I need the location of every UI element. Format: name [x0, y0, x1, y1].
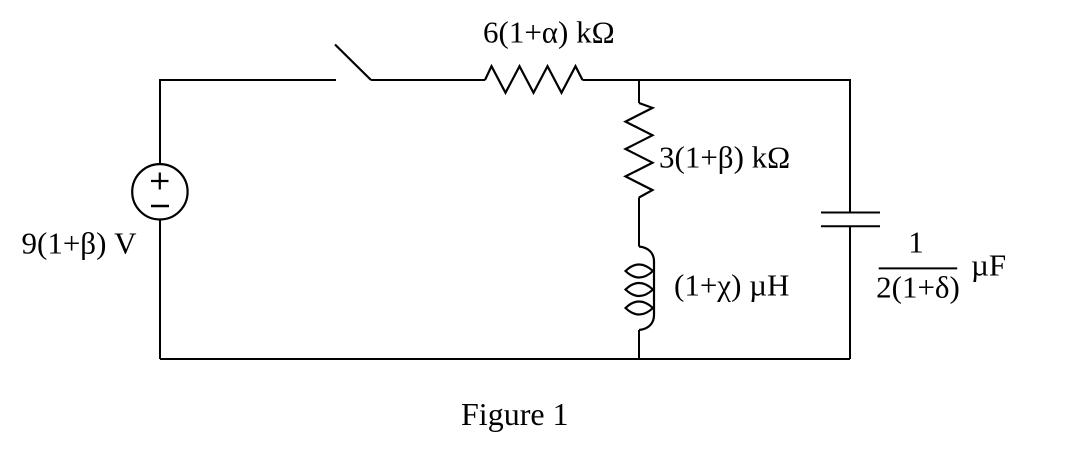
wire middle branch top lead	[638, 79, 640, 103]
svg-text:µF: µF	[971, 248, 1006, 283]
switch S1 (open blade)	[335, 45, 371, 81]
svg-text:1: 1	[908, 225, 924, 260]
capacitor C top plate	[821, 212, 880, 214]
inductor loop 1	[626, 265, 654, 278]
wire inductor bottom lead	[638, 330, 640, 359]
wire resistor to inductor	[638, 198, 640, 247]
svg-text:(1+χ) µH: (1+χ) µH	[674, 268, 789, 303]
wire top-left horizontal (source to switch)	[160, 79, 336, 81]
resistor 6(1+α) kΩ zigzag	[485, 66, 583, 93]
wire resistor to top-right corner	[583, 79, 851, 81]
wire right vertical lower (capacitor to bottom)	[849, 226, 851, 359]
inductor (1+χ) µH coil frame	[639, 247, 654, 331]
inductor loop 2	[626, 283, 654, 296]
svg-text:3(1+β) kΩ: 3(1+β) kΩ	[659, 140, 790, 175]
svg-text:2(1+δ): 2(1+δ)	[876, 269, 960, 304]
voltage source VS circle	[132, 164, 187, 219]
svg-text:Figure 1: Figure 1	[461, 396, 569, 432]
inductor loop 3	[626, 302, 654, 315]
wire right vertical upper (corner to capacitor)	[849, 79, 851, 213]
wire left vertical lower (source to bottom corner)	[159, 220, 161, 360]
resistor 3(1+β) kΩ zigzag	[626, 103, 653, 198]
wire switch to resistor	[371, 79, 485, 81]
wire bottom horizontal	[160, 358, 850, 360]
svg-text:6(1+α) kΩ: 6(1+α) kΩ	[483, 15, 615, 50]
capacitor C bottom plate	[821, 225, 880, 227]
wire left vertical upper (top corner to source)	[159, 79, 161, 164]
svg-text:9(1+β) V: 9(1+β) V	[22, 226, 138, 261]
label capacitor fraction bar	[879, 267, 958, 269]
voltage source plus sign	[151, 173, 169, 190]
voltage source minus sign	[151, 205, 169, 208]
